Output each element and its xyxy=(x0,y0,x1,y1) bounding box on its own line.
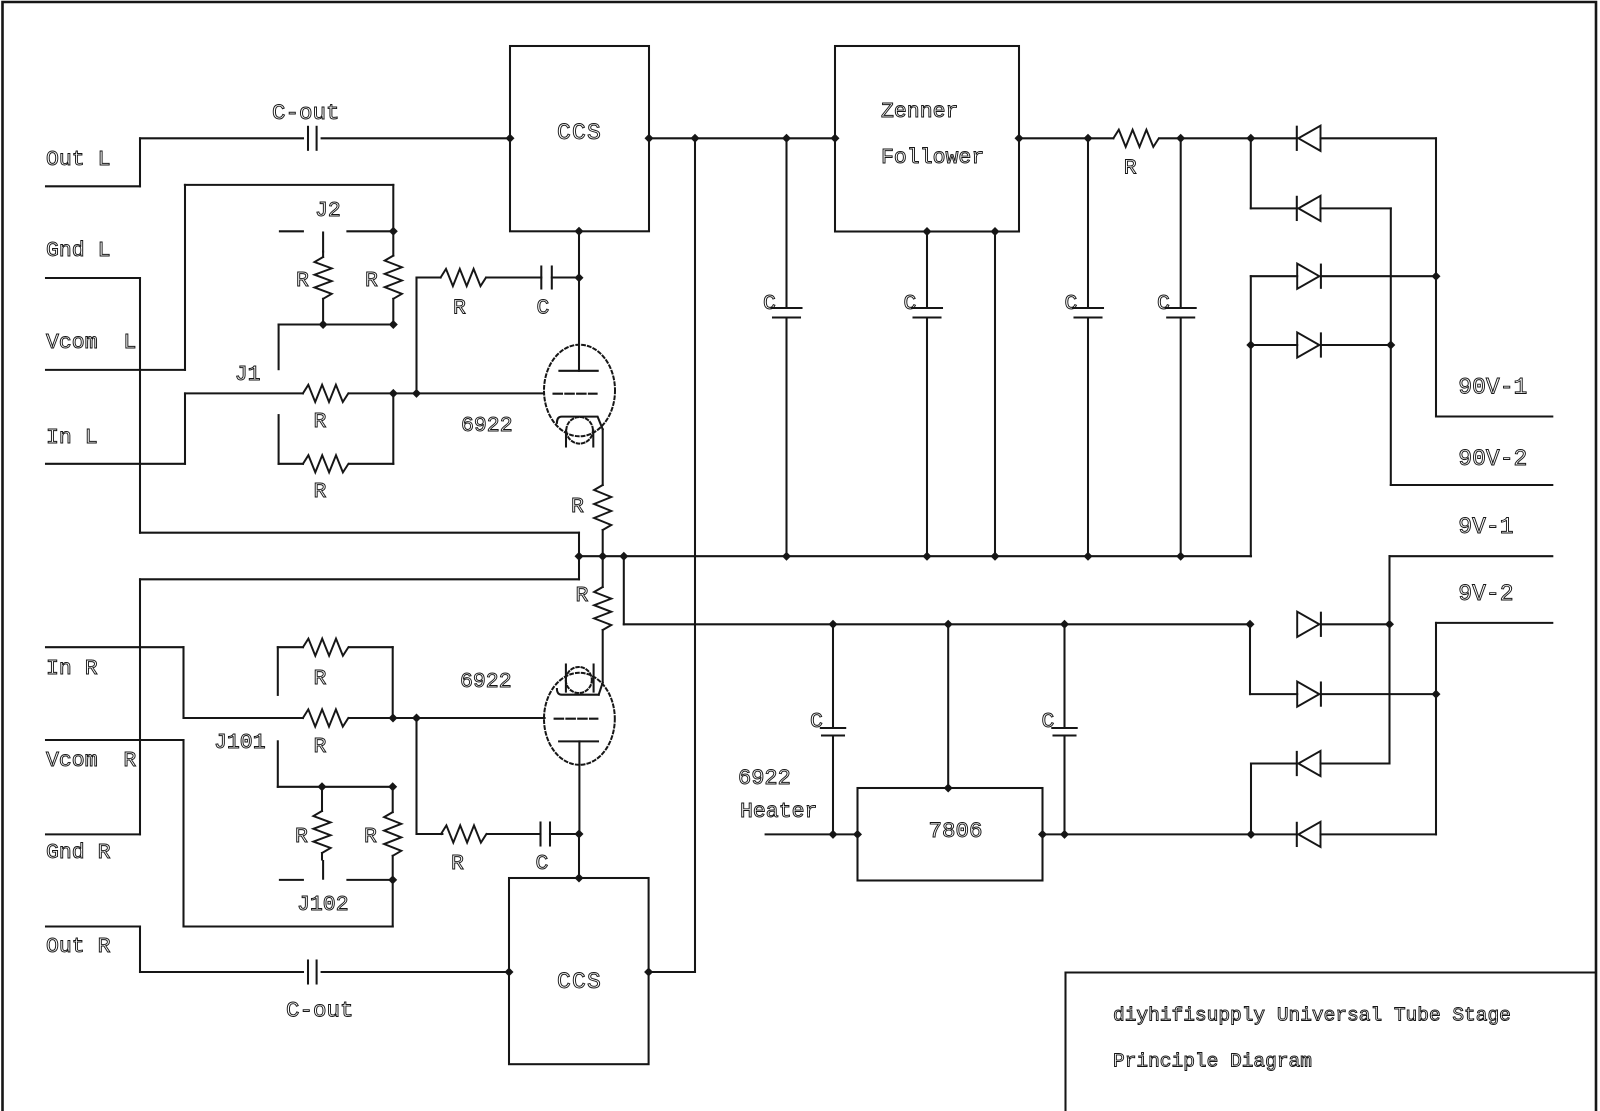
title box xyxy=(1066,971,1597,973)
wire common rail xyxy=(579,555,1251,557)
svg-text:Heater: Heater xyxy=(740,800,817,824)
svg-text:diyhifisupply Universal Tube S: diyhifisupply Universal Tube Stage xyxy=(1113,1005,1511,1027)
svg-text:90V-2: 90V-2 xyxy=(1458,446,1527,472)
wire J101 row left xyxy=(184,717,303,719)
node rail cap2 xyxy=(923,552,932,561)
resistor R (left vertical, upper block) xyxy=(322,252,324,257)
svg-text:R: R xyxy=(314,735,327,759)
tube upper anode plate xyxy=(559,370,597,372)
wire In L riser xyxy=(184,393,186,463)
node anode junction upper xyxy=(575,273,584,282)
wire cathode lead lower xyxy=(602,630,604,683)
node J1 row B xyxy=(412,389,421,398)
svg-text:R: R xyxy=(453,297,466,321)
node J101 row B xyxy=(412,714,421,723)
wire C-out to lower CCS xyxy=(322,971,509,973)
capacitor C filter 3 xyxy=(1087,138,1089,308)
svg-text:R: R xyxy=(295,825,308,849)
diode D4 row xyxy=(1251,344,1297,346)
wire C-out to CCS xyxy=(322,137,510,139)
node rail gnd xyxy=(575,552,584,561)
tube upper cathode xyxy=(557,417,603,430)
wire RC row lower left xyxy=(417,833,443,835)
svg-text:Gnd R: Gnd R xyxy=(46,841,111,865)
svg-text:R: R xyxy=(571,495,584,519)
wire diode column A upper xyxy=(1250,138,1252,208)
node heater rail cap B xyxy=(1060,620,1069,629)
node top wire at cap 1 xyxy=(782,134,791,143)
node top wire at diode column xyxy=(1246,134,1255,143)
capacitor C-out (left channel) xyxy=(307,127,309,150)
wire CCS to Zenner xyxy=(649,137,835,139)
svg-text:R: R xyxy=(1124,157,1137,181)
node CCS left xyxy=(506,134,515,143)
node Zenner bottom 2 xyxy=(991,227,1000,236)
svg-text:J1: J1 xyxy=(235,363,261,387)
svg-text:Out R: Out R xyxy=(46,935,111,959)
svg-text:J2: J2 xyxy=(315,199,341,223)
resistor R (cathode lower) xyxy=(602,556,604,587)
tube lower anode plate xyxy=(559,740,598,742)
svg-text:9V-2: 9V-2 xyxy=(1458,581,1513,607)
jumper J1 upper pin xyxy=(278,325,280,370)
wire J1 row right to grid xyxy=(349,392,544,394)
wire CCS anode lead xyxy=(578,231,580,370)
wire lower row to J1 node xyxy=(392,393,394,463)
wire Vcom R riser / lower J-block left edge xyxy=(182,740,184,927)
lower J-block right edge xyxy=(392,880,394,927)
svg-text:R: R xyxy=(296,269,309,293)
diode DL2 row xyxy=(1250,693,1297,695)
svg-text:C-out: C-out xyxy=(272,100,340,126)
wire RC leg lower xyxy=(415,718,417,834)
svg-text:C: C xyxy=(1157,292,1170,316)
svg-text:C: C xyxy=(536,852,549,876)
wire cathode lead upper xyxy=(602,429,604,485)
diode D2 row xyxy=(1251,207,1297,209)
node rail cap1 xyxy=(782,552,791,561)
wire Zenner ground leg xyxy=(994,232,996,557)
node Zenner left xyxy=(831,134,840,143)
wire Out R riser xyxy=(139,927,141,973)
capacitor C (grid lower) xyxy=(539,823,541,846)
svg-text:Vcom R: Vcom R xyxy=(46,749,136,773)
svg-text:Vcom L: Vcom L xyxy=(46,331,136,355)
wire Gnd R riser xyxy=(139,579,141,834)
tube upper heater circle xyxy=(566,417,593,444)
svg-text:C: C xyxy=(1042,710,1055,734)
capacitor C heater A xyxy=(832,624,834,728)
svg-text:C: C xyxy=(904,292,917,316)
node CCS bottom xyxy=(575,227,584,236)
svg-text:7806: 7806 xyxy=(929,818,983,844)
node junction row lower left xyxy=(318,782,327,791)
diode D1 xyxy=(1296,127,1298,150)
node top wire at cap 3 xyxy=(1084,134,1093,143)
wire Gnd L riser xyxy=(139,278,141,533)
wire diode right column D xyxy=(1435,138,1437,416)
svg-text:C: C xyxy=(810,710,823,734)
wire heater rail xyxy=(624,623,1250,625)
svg-text:C: C xyxy=(537,297,550,321)
svg-text:Principle Diagram: Principle Diagram xyxy=(1113,1051,1312,1073)
wire Out L to C-out xyxy=(140,137,303,139)
tube 6922 upper envelope xyxy=(544,345,615,437)
wire diode column F xyxy=(1250,764,1252,835)
node rail cap3 xyxy=(1084,552,1093,561)
node heater rail 7806 gnd xyxy=(944,620,953,629)
wire heater input xyxy=(766,833,858,835)
svg-text:R: R xyxy=(365,269,378,293)
node Zenner right xyxy=(1015,134,1024,143)
wire diode right column B xyxy=(1390,208,1392,485)
wire Gnd R horizontal xyxy=(140,578,579,580)
capacitor C filter 1 xyxy=(785,138,787,308)
node column F at DL4 xyxy=(1247,830,1256,839)
svg-text:C-out: C-out xyxy=(286,998,354,1024)
wire Out L riser xyxy=(139,138,141,186)
jumper J2 left pin xyxy=(280,230,303,232)
node CCS lower top xyxy=(575,874,584,883)
svg-text:R: R xyxy=(576,584,589,608)
jumper J2 centre pin xyxy=(322,233,324,252)
svg-text:6922: 6922 xyxy=(460,670,512,694)
svg-text:R: R xyxy=(364,825,377,849)
svg-text:R: R xyxy=(451,852,464,876)
node top wire at cap 4 xyxy=(1176,134,1185,143)
svg-text:R: R xyxy=(314,667,327,691)
node rail zenner leg xyxy=(991,552,1000,561)
svg-text:Zenner: Zenner xyxy=(881,100,958,124)
resistor R (J101 series) xyxy=(303,709,348,726)
resistor R (left vertical, lower block) xyxy=(321,787,323,811)
svg-text:In L: In L xyxy=(46,426,98,450)
jumper J101 lower pin xyxy=(277,741,279,787)
resistor R (grid stopper upper) xyxy=(441,269,486,286)
node junction row right xyxy=(389,320,398,329)
wire lower anode lead xyxy=(578,741,580,834)
svg-text:9V-1: 9V-1 xyxy=(1458,514,1513,540)
node CCS lower right xyxy=(644,968,653,977)
wire Gnd L horizontal xyxy=(140,532,579,534)
node 7806 left xyxy=(853,830,862,839)
lower J-block bottom edge xyxy=(184,925,393,927)
node heater input cap xyxy=(829,830,838,839)
wire RC row upper left xyxy=(417,276,441,278)
node rail cathode upper xyxy=(598,552,607,561)
wire RC leg upper xyxy=(415,278,417,394)
node 7806 right xyxy=(1038,830,1047,839)
wire B+ return riser (top CCS to bottom CCS) xyxy=(694,138,696,972)
wire diode column E xyxy=(1249,624,1251,694)
tube lower heater circle xyxy=(566,667,592,693)
svg-text:C: C xyxy=(763,292,776,316)
capacitor C heater B xyxy=(1063,624,1065,728)
node top wire at riser xyxy=(691,134,700,143)
node J102 right xyxy=(388,875,397,884)
svg-text:Out L: Out L xyxy=(46,148,111,172)
tube upper heater pin right xyxy=(592,431,594,447)
upper J-block right edge xyxy=(392,185,394,231)
wire R to C upper xyxy=(487,276,541,278)
wire J101 row right to grid xyxy=(349,717,544,719)
node heater rail cap A xyxy=(829,620,838,629)
svg-text:Gnd L: Gnd L xyxy=(46,239,111,263)
diode DL3 row xyxy=(1251,762,1297,764)
jumper J102 centre pin xyxy=(322,861,324,879)
wire top row to J101 node xyxy=(392,647,394,718)
wire diode column A lower xyxy=(1250,276,1252,556)
diode D3 row xyxy=(1251,275,1297,277)
node J2 right xyxy=(389,227,398,236)
node heater output cap xyxy=(1060,830,1069,839)
block Zenner Follower xyxy=(835,46,1019,232)
jumper J2 right wire xyxy=(347,230,393,232)
tube lower heater pin left xyxy=(565,665,567,692)
node DL1 right xyxy=(1385,620,1394,629)
wire J1 row left xyxy=(185,392,303,394)
svg-text:C: C xyxy=(1065,292,1078,316)
block 7806 xyxy=(858,788,1043,881)
node junction row lower right xyxy=(388,782,397,791)
jumper J102 left pin xyxy=(280,879,303,881)
svg-text:R: R xyxy=(314,480,327,504)
node CCS lower left xyxy=(505,968,514,977)
wire DL1 to node xyxy=(1321,623,1390,625)
tube lower cathode xyxy=(557,689,599,695)
wire R to diode D1 xyxy=(1160,137,1297,139)
svg-text:CCS: CCS xyxy=(557,969,602,995)
upper J-block top edge xyxy=(185,184,393,186)
node junction row left xyxy=(319,320,328,329)
svg-text:J101: J101 xyxy=(214,731,266,755)
svg-text:Follower: Follower xyxy=(881,146,984,170)
terminal 90V-1 xyxy=(1436,415,1552,417)
tube lower heater pin right xyxy=(593,665,595,692)
svg-text:J102: J102 xyxy=(297,893,349,917)
resistor R (B+ feed) xyxy=(1113,130,1158,147)
node DL2 right xyxy=(1432,690,1441,699)
wire Out R to C-out xyxy=(140,971,303,973)
svg-text:6922: 6922 xyxy=(461,414,513,438)
wire C to anode node upper xyxy=(552,276,579,278)
jumper J101 upper pin xyxy=(277,647,279,695)
node J1 row A xyxy=(389,389,398,398)
svg-text:In R: In R xyxy=(46,657,98,681)
diode DL1 xyxy=(1297,612,1319,637)
node column B at D4 xyxy=(1386,341,1395,350)
capacitor C filter 2 xyxy=(926,232,928,309)
wire 7806 ground pin xyxy=(947,624,949,788)
wire 7806 output xyxy=(1043,833,1252,835)
svg-text:CCS: CCS xyxy=(557,120,602,146)
resistor R (J1 series) xyxy=(303,385,348,402)
wire Vcom L riser / J-block left edge xyxy=(184,185,186,370)
junction row lower block xyxy=(278,786,393,788)
resistor R (lower row, upper block) xyxy=(279,463,303,465)
tube upper grid (dashed) xyxy=(554,393,597,395)
wire D1 to corner xyxy=(1321,137,1437,139)
resistor R (right vertical, upper block) xyxy=(392,231,394,255)
jumper J1 lower pin xyxy=(278,415,280,464)
capacitor C filter 4 xyxy=(1180,138,1182,308)
node 7806 ground pin top xyxy=(944,784,953,793)
node Zenner bottom 1 xyxy=(923,227,932,236)
resistor R (right vertical, lower block) xyxy=(392,787,394,812)
terminal 90V-2 xyxy=(1391,484,1553,486)
wire cathode resistor to rail xyxy=(602,530,604,556)
tube 6922 lower envelope xyxy=(544,673,615,765)
node rail cap4 xyxy=(1176,552,1185,561)
svg-text:90V-1: 90V-1 xyxy=(1458,375,1527,401)
wire C to anode node lower xyxy=(550,833,579,835)
resistor R (cathode upper) xyxy=(594,485,611,530)
svg-text:6922: 6922 xyxy=(738,766,791,791)
tube upper heater pin left xyxy=(565,431,567,447)
jumper J102 right wire xyxy=(347,879,392,881)
block CCS upper xyxy=(510,46,649,231)
node J101 row A xyxy=(389,714,398,723)
node rail heater drop xyxy=(619,552,628,561)
wire In R riser xyxy=(182,647,184,718)
wire Gnd tie riser xyxy=(578,533,580,580)
block CCS lower xyxy=(509,878,649,1064)
node heater rail diode column xyxy=(1246,620,1255,629)
wire heater rail drop xyxy=(623,556,625,624)
wire 9V-1 riser xyxy=(1388,556,1390,763)
capacitor C (grid upper) xyxy=(540,267,542,289)
resistor R (top row, lower block) xyxy=(278,646,303,648)
junction row upper block xyxy=(279,323,394,325)
wire Zenner to R xyxy=(1019,137,1113,139)
capacitor C-out (right channel) xyxy=(307,961,309,984)
resistor R (grid stopper lower) xyxy=(441,825,486,842)
terminal 9V-1 xyxy=(1390,555,1553,557)
svg-text:R: R xyxy=(314,410,327,434)
diode DL4 row xyxy=(1251,833,1297,835)
node column D at D3 xyxy=(1432,272,1441,281)
tube lower grid (dashed) xyxy=(555,718,598,720)
wire CCS lower to riser xyxy=(649,971,695,973)
wire anode node to CCS lower xyxy=(578,834,580,878)
node column A at D4 xyxy=(1246,341,1255,350)
wire R to C lower xyxy=(487,833,540,835)
node anode junction lower xyxy=(575,830,584,839)
node CCS right xyxy=(645,134,654,143)
terminal 9V-2 xyxy=(1435,623,1437,835)
